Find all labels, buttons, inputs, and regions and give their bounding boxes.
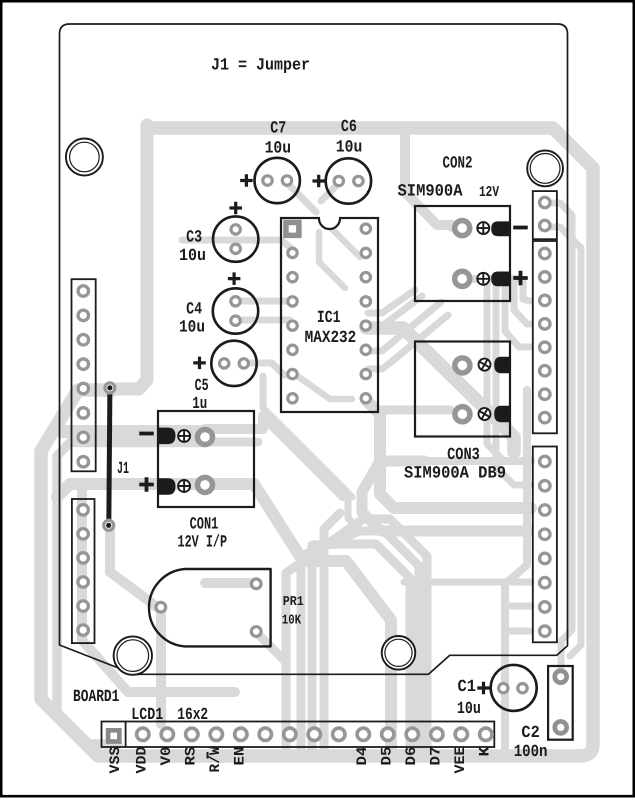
svg-text:C3: C3 — [186, 229, 202, 248]
svg-text:C1: C1 — [458, 678, 477, 697]
svg-text:D6: D6 — [404, 747, 420, 766]
svg-text:D7: D7 — [428, 747, 444, 766]
svg-text:SIM900A: SIM900A — [398, 183, 464, 202]
svg-text:BOARD1: BOARD1 — [73, 688, 119, 707]
svg-text:10u: 10u — [457, 700, 481, 719]
svg-text:VSS: VSS — [108, 746, 124, 773]
svg-text:V0: V0 — [159, 747, 175, 766]
svg-text:10u: 10u — [265, 140, 292, 159]
svg-text:16x2: 16x2 — [177, 706, 208, 725]
svg-text:12V: 12V — [479, 184, 499, 201]
svg-text:SIM900A DB9: SIM900A DB9 — [404, 465, 506, 484]
svg-text:VEE: VEE — [453, 746, 469, 773]
svg-text:C4: C4 — [186, 300, 202, 319]
svg-text:K: K — [477, 746, 493, 756]
svg-text:VDD: VDD — [134, 746, 150, 773]
svg-text:LCD1: LCD1 — [131, 706, 163, 725]
svg-text:R/W: R/W — [208, 746, 224, 772]
svg-text:10u: 10u — [179, 319, 205, 338]
svg-text:C6: C6 — [341, 118, 357, 137]
svg-text:RS: RS — [183, 746, 199, 765]
svg-text:CON2: CON2 — [443, 155, 473, 174]
svg-text:EN: EN — [232, 747, 248, 766]
svg-text:C2: C2 — [521, 724, 539, 743]
svg-text:D4: D4 — [355, 746, 371, 765]
svg-text:D5: D5 — [379, 747, 395, 766]
svg-text:PR1: PR1 — [283, 595, 304, 610]
svg-text:10K: 10K — [282, 614, 302, 629]
svg-text:CON1: CON1 — [190, 516, 219, 535]
svg-text:MAX232: MAX232 — [305, 329, 357, 348]
svg-text:100n: 100n — [514, 743, 548, 762]
svg-text:J1 = Jumper: J1 = Jumper — [211, 57, 310, 76]
svg-text:IC1: IC1 — [317, 309, 341, 328]
svg-text:10u: 10u — [179, 247, 206, 266]
svg-text:J1: J1 — [117, 460, 129, 479]
svg-text:10u: 10u — [336, 139, 363, 158]
svg-text:1u: 1u — [192, 395, 207, 414]
svg-text:C7: C7 — [270, 119, 286, 138]
svg-text:C5: C5 — [195, 377, 209, 396]
svg-text:CON3: CON3 — [447, 446, 480, 465]
svg-text:12V I/P: 12V I/P — [178, 534, 228, 553]
